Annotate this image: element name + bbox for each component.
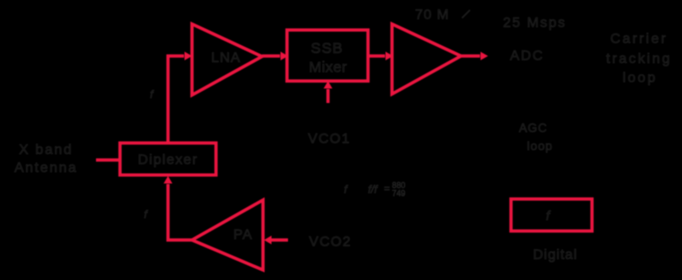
amplifier PA triangle <box>192 200 263 270</box>
svg-text:Antenna: Antenna <box>14 159 77 175</box>
wire diplexer to LNA <box>168 56 184 143</box>
svg-text:f: f <box>150 89 154 101</box>
svg-text:Digital: Digital <box>533 246 578 262</box>
wire VCO1 to mixer <box>326 89 329 103</box>
svg-text:tracking: tracking <box>606 50 672 66</box>
svg-text:PA: PA <box>233 226 252 242</box>
mixer box <box>287 30 368 81</box>
arrowhead into mixer <box>281 52 289 61</box>
wire mixer to VGA <box>368 54 385 57</box>
svg-text:Carrier: Carrier <box>610 30 667 46</box>
svg-text:AGC: AGC <box>519 121 547 135</box>
wire antenna to diplexer <box>96 158 120 161</box>
wire VGA output to ADC <box>461 54 480 57</box>
svg-text:loop: loop <box>623 69 658 85</box>
svg-text:loop: loop <box>527 139 553 153</box>
wire PA to diplexer <box>168 184 192 240</box>
svg-text:X band: X band <box>19 141 73 157</box>
svg-text:VCO2: VCO2 <box>309 233 352 249</box>
svg-text:VCO1: VCO1 <box>308 130 351 146</box>
arrowhead VCO2 into PA <box>264 236 272 245</box>
svg-text:f: f <box>344 184 348 196</box>
svg-text:749: 749 <box>392 189 406 198</box>
svg-text:25 Msps: 25 Msps <box>503 14 566 30</box>
wire VCO2 to PA <box>271 238 288 241</box>
svg-text:f: f <box>144 209 148 221</box>
arrowhead into VGA <box>386 52 394 61</box>
svg-text:SSB: SSB <box>311 40 343 57</box>
svg-text:f: f <box>546 208 551 223</box>
svg-text:LNA: LNA <box>211 49 241 65</box>
VGA gain slash mark <box>462 10 470 18</box>
arrowhead into LNA <box>185 52 193 61</box>
svg-text:ADC: ADC <box>510 47 544 63</box>
amplifier LNA triangle <box>192 24 262 95</box>
svg-text:Mixer: Mixer <box>309 59 347 76</box>
arrowhead VCO1 into mixer <box>324 81 333 89</box>
arrowhead PA output into diplexer <box>164 176 173 184</box>
svg-text:Diplexer: Diplexer <box>138 151 198 167</box>
wire LNA to mixer <box>262 54 280 57</box>
digital box <box>511 199 592 231</box>
diplexer box <box>120 143 216 175</box>
svg-text:=: = <box>384 184 390 195</box>
svg-text:70 M: 70 M <box>415 6 449 22</box>
amplifier VGA triangle <box>392 24 461 94</box>
svg-text:f/f: f/f <box>368 184 378 196</box>
arrowhead VGA output to ADC <box>481 52 489 61</box>
